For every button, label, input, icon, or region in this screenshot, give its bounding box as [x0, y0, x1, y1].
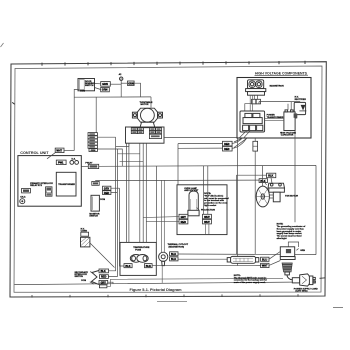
wire HV box bottom to 2-cell: [254, 138, 256, 141]
long vertical x237.6: [237, 138, 239, 266]
wire rectifier down: [294, 118, 296, 137]
turntable motor body: [132, 108, 162, 122]
wire control unit to RY connector: [81, 165, 88, 167]
wire y279 to power terminal: [107, 278, 283, 286]
wire enclosure right to HV left vertical: [164, 136, 238, 138]
connector WHT (control unit top): [55, 148, 64, 153]
wire A3 up to line y180: [94, 180, 96, 183]
border tick marks bottom: [32, 294, 298, 298]
wire upper GRN box to lamp vertical: [110, 83, 121, 85]
thermal cutout body: [159, 252, 168, 266]
connector GRN (door switch upper): [101, 82, 111, 87]
connector BLK (cutout 2): [170, 257, 178, 261]
svg-text:HIGH VOLTAGE COMPONENTS: HIGH VOLTAGE COMPONENTS: [255, 71, 307, 76]
svg-text:SWITCH: SWITCH: [89, 216, 98, 218]
connector GRY (lamp left): [179, 214, 188, 219]
wire fuse right to noise filter WHT: [152, 264, 261, 266]
connector BLK (fan 2): [259, 179, 267, 183]
note text (grounding): [277, 224, 306, 240]
wire lamp left connectors to bundle: [143, 217, 179, 222]
registration tick left border: [12, 102, 14, 104]
long wire y180: [95, 179, 259, 182]
svg-text:MOTOR: MOTOR: [141, 104, 149, 106]
wire 2-cell connector down: [254, 151, 256, 254]
wire middle bundle x146.3: [145, 143, 147, 242]
connector RED (HV feed lower): [223, 146, 233, 151]
svg-text:COM: COM: [100, 199, 105, 201]
connector RED (monitor): [103, 191, 111, 195]
wire corner x236.4: [236, 175, 266, 254]
svg-text:GRN: GRN: [102, 83, 108, 86]
connector RED (lamp left lower): [179, 219, 188, 224]
wire door switch to connectors: [95, 84, 101, 90]
power supply cord: [287, 275, 292, 280]
door sensing switch: [78, 79, 95, 93]
wire right side down: [315, 165, 317, 254]
connector GRN (right of lamp): [128, 81, 135, 86]
wire cutout lower to noise filter: [178, 258, 227, 260]
svg-text:GRN: GRN: [102, 89, 108, 92]
connector GRN (door switch lower): [101, 87, 110, 91]
connector RY: [88, 164, 98, 168]
wire diagonals below box to RED connectors: [234, 138, 247, 148]
fan blade: [256, 186, 273, 207]
wire ladder lower to corner x122.3: [97, 149, 122, 166]
svg-text:WHT: WHT: [56, 150, 62, 153]
underscore line below caption: [157, 301, 187, 303]
power supply terminal block: [280, 247, 295, 275]
node CN-A: [20, 195, 26, 203]
temperature fuse body: [130, 255, 148, 263]
svg-text:WHT: WHT: [204, 221, 210, 224]
H.V. rectifier D1: [294, 102, 306, 114]
wire mesh segment y153.8: [118, 153, 140, 155]
svg-text:BLK: BLK: [171, 258, 176, 261]
secondary interlock switch body: [90, 271, 99, 285]
svg-text:SWITCH: SWITCH: [85, 85, 94, 87]
svg-text:GRN: GRN: [128, 82, 134, 85]
svg-text:BLK: BLK: [171, 253, 176, 256]
wire y166 corner down x156.5: [156, 166, 158, 242]
svg-text:CAPACITOR: CAPACITOR: [281, 134, 294, 137]
wire into turntable motor: [150, 97, 152, 108]
bottom long bus wire: [15, 282, 317, 285]
border tick mark right: [320, 277, 326, 280]
svg-text:Figure 5-1. Pictorial Diagram: Figure 5-1. Pictorial Diagram: [130, 288, 182, 292]
connector BLU: [261, 257, 269, 261]
border frame inner: [14, 66, 322, 292]
wire WHT lamp connectors down stubs: [206, 224, 209, 235]
connector A3 (monitor top): [92, 181, 99, 185]
svg-text:COM: COM: [81, 280, 86, 282]
svg-text:GRY: GRY: [104, 187, 110, 190]
connector GRY (interlock 3): [99, 280, 108, 284]
wire loop above transformer: [245, 102, 259, 111]
turntable connectors right: [149, 128, 161, 139]
svg-text:MAGNETRON: MAGNETRON: [270, 84, 284, 87]
connector WHT (lamp right): [203, 214, 212, 219]
oven lamp bulb: [188, 191, 199, 216]
vertical bus x117.5: [108, 149, 117, 276]
rectifier ground blob: [293, 115, 297, 119]
svg-text:TRANSFORMER: TRANSFORMER: [267, 116, 284, 119]
relay RY2: [46, 187, 52, 196]
svg-text:WHT: WHT: [262, 265, 268, 268]
connector WHT (lamp right lower): [203, 219, 212, 224]
svg-text:GRY: GRY: [181, 216, 187, 219]
H.V. connector hatched: [81, 237, 90, 247]
connector H.V. box: [81, 232, 89, 236]
svg-text:RED: RED: [224, 148, 229, 151]
svg-text:CONTROL UNIT: CONTROL UNIT: [20, 151, 49, 155]
connector BLK (fan 1): [267, 173, 276, 178]
connector BLK (fuse right): [145, 264, 153, 268]
wire transformer exit diagonals: [240, 131, 251, 138]
registration dash bottom-right: [333, 307, 343, 309]
svg-text:BLK: BLK: [260, 180, 265, 183]
magnetron filament connectors: [252, 99, 261, 104]
wire top horizontal bus: [74, 96, 151, 98]
wire magnetron filament leads: [250, 95, 252, 113]
connector RED (interlock 2): [99, 275, 108, 279]
svg-text:CN-A: CN-A: [20, 195, 26, 198]
wire WHT verticals from y166: [203, 166, 207, 215]
leader line into box: [47, 153, 55, 159]
wire mesh segment y146.5: [116, 143, 129, 146]
svg-text:GRN: GRN: [91, 150, 96, 152]
wire WHT to vertical: [64, 150, 74, 152]
vertical bus x119.5: [120, 188, 125, 266]
ground wire loop above terminal: [288, 242, 298, 247]
wire lamp to GRN box: [121, 82, 127, 84]
svg-text:A2: A2: [119, 73, 123, 76]
wire HV conn diagonal to interlock vertical: [90, 243, 115, 268]
svg-text:RED: RED: [181, 221, 186, 224]
wire transformer to capacitor: [265, 118, 284, 120]
wire RED pair horizontals: [178, 143, 223, 148]
wire right GRN box onward: [134, 83, 140, 97]
power plug P1: [292, 274, 315, 286]
connector BLK (fuse left): [124, 264, 132, 268]
fan motor assembly: [268, 183, 285, 202]
registration tick top-left page corner: [1, 43, 4, 47]
connector RED (HV feed upper): [223, 141, 233, 146]
high voltage capacitor C1: [284, 110, 297, 131]
turntable motor base trapezoid: [140, 122, 155, 127]
svg-text:PW1: PW1: [58, 162, 64, 165]
connector ladder CN-B: [88, 133, 97, 153]
wire thermal cutout feeds from y180: [162, 180, 165, 252]
svg-text:WHT: WHT: [204, 216, 210, 219]
turntable connector enclosure: [126, 127, 165, 143]
wire interlock to bottom bus: [108, 282, 113, 283]
turntable connectors left: [131, 128, 143, 134]
note text (thermal): [234, 275, 267, 284]
svg-text:RED: RED: [101, 276, 106, 279]
connector GRY (monitor): [103, 186, 111, 190]
wire fan connectors to motor: [265, 178, 272, 185]
noise filter FL1: [227, 256, 259, 263]
svg-text:BLK: BLK: [146, 265, 151, 268]
vertical bus x114.5: [109, 137, 116, 271]
connector WHT (filter): [261, 263, 269, 267]
border tick marks top: [42, 61, 305, 66]
wire fan from y166: [261, 166, 263, 187]
wire thermal cutout down to bus: [161, 266, 163, 283]
D.S. terminals: [70, 159, 79, 165]
wire magnetron to rectifier run: [259, 101, 300, 104]
wire cutout to right vertical: [178, 253, 316, 256]
svg-text:RELAY RY2: RELAY RY2: [30, 184, 43, 187]
svg-text:(MAGNETRON): (MAGNETRON): [169, 245, 185, 248]
svg-text:RED: RED: [224, 143, 229, 146]
svg-text:FAN MOTOR: FAN MOTOR: [285, 194, 298, 197]
HV components box: [237, 78, 311, 139]
wire middle bundle x143.2: [142, 143, 144, 242]
svg-text:RECTIFIER: RECTIFIER: [295, 99, 307, 101]
transformer box: [56, 172, 76, 196]
power transformer T1: [240, 111, 265, 132]
svg-text:TRANSFORMER: TRANSFORMER: [58, 183, 75, 186]
wire ladder to vertical x115.6: [97, 136, 115, 138]
svg-text:mate of the power supply cor: mate of the power supply cord.: [234, 281, 266, 284]
wire enclosure left down pair: [126, 143, 128, 242]
svg-text:BLK: BLK: [101, 270, 106, 273]
svg-text:FUSE: FUSE: [135, 249, 141, 251]
wire x178 vertical down to lamp enclosure: [177, 144, 179, 185]
HV title underline: [255, 74, 309, 76]
svg-text:BLK: BLK: [125, 265, 130, 268]
oven lamp enclosure: [177, 185, 227, 235]
border frame outer: [10, 62, 326, 297]
note text (lamp): [204, 193, 229, 207]
wire BLU WHT to terminal: [269, 252, 280, 266]
connector 2-cell below HV box: [253, 141, 258, 151]
long wire oven lamp line y166: [99, 164, 316, 167]
wire RED connectors up into HV box: [232, 138, 246, 148]
svg-text:RED: RED: [104, 192, 109, 195]
wire mesh segment y161.3: [120, 160, 144, 162]
magnetron U1: [246, 80, 266, 100]
svg-text:BLK: BLK: [268, 175, 273, 178]
wire down to ladder: [95, 97, 97, 133]
svg-text:GRN: GRN: [300, 250, 305, 252]
connector BLK (interlock 1): [99, 269, 109, 273]
wire lamp down: [120, 80, 122, 97]
connector BLK (cutout 1): [170, 252, 178, 256]
wire middle bundle x139.8: [139, 143, 141, 242]
wire HV right vertical down to note area: [294, 138, 296, 222]
wire capacitor top feed: [288, 102, 291, 110]
temperature fuse enclosure: [120, 242, 156, 275]
svg-text:(120V 60Hz): (120V 60Hz): [295, 291, 307, 293]
svg-text:BLU: BLU: [262, 259, 267, 262]
svg-text:after/right: after/right: [277, 237, 287, 240]
monitor switch: [89, 195, 105, 217]
connector COM (interlock 4): [99, 285, 107, 288]
lamp A2: [119, 73, 123, 80]
wire door switch COM down: [74, 90, 79, 151]
svg-text:light socket: light socket: [204, 204, 216, 207]
connector PW1: [56, 160, 66, 165]
wire monitor connectors to verticals: [111, 188, 120, 192]
connector A4: [22, 188, 31, 193]
svg-text:SWITCH: SWITCH: [75, 276, 84, 278]
control unit box: [18, 156, 81, 207]
svg-text:COM: COM: [80, 91, 85, 93]
